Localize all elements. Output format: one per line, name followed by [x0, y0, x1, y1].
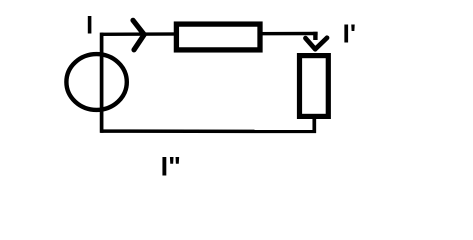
wire: bottom horizontal — [100, 129, 316, 133]
arrow for current I' (down-pointing chevron into R2) — [306, 38, 328, 49]
resistor R1 (horizontal box) — [176, 24, 260, 50]
svg-text:I': I' — [343, 19, 356, 49]
arrow for current I (right-pointing chevron on top wire) — [133, 20, 144, 50]
svg-text:I: I — [86, 12, 93, 40]
wire: top horizontal — [101, 32, 318, 36]
current source circle — [66, 54, 126, 110]
svg-text:I": I" — [161, 152, 181, 182]
wire: left vertical (through source) — [100, 33, 104, 133]
resistor R2 (vertical box) — [300, 56, 329, 117]
wire: right upper drop from top wire — [313, 32, 317, 40]
wire: right lower below resistor — [312, 116, 316, 133]
